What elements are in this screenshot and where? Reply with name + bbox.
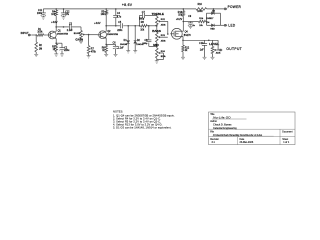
wire R1 to Q1 base: [44, 34, 47, 36]
capacitor C13 1uF: [204, 40, 206, 43]
resistor R8 10k tone: [141, 25, 148, 28]
svg-text:NOTES:: NOTES:: [113, 109, 123, 113]
svg-text:560p: 560p: [139, 19, 145, 21]
node dot rail C12: [63, 8, 65, 10]
diode D3 1N5817: [211, 12, 214, 15]
svg-text:RV3: RV3: [161, 35, 166, 37]
wire LEVEL wiper to OUTPUT: [217, 49, 220, 51]
svg-text:Nu-Life OD: Nu-Life OD: [213, 115, 231, 119]
svg-text:100R: 100R: [197, 11, 203, 13]
node dot rail C4: [115, 8, 117, 10]
wire Q1 collector branch: [56, 26, 69, 28]
svg-text:D3: D3: [212, 10, 216, 12]
svg-text:1u: 1u: [193, 25, 196, 27]
wire GAIN bottom to ground: [80, 39, 82, 42]
svg-text:B100k: B100k: [74, 33, 81, 35]
svg-text:Q1: Q1: [58, 30, 62, 32]
svg-text:Q4: Q4: [185, 31, 189, 33]
resistor R6 1k emitter: [105, 45, 108, 52]
node dot power: [213, 8, 215, 10]
node dot Q2 collector: [105, 25, 107, 27]
svg-text:23-Mar-2026: 23-Mar-2026: [240, 141, 254, 144]
svg-text:D2: D2: [137, 40, 141, 42]
svg-text:D:\Users\Chuck Bones\My Docs\N: D:\Users\Chuck Bones\My Docs\Nu-Life v1.…: [213, 134, 263, 137]
ground under D2: [133, 50, 137, 52]
svg-text:10k: 10k: [140, 29, 145, 31]
wire Q4 source: [180, 35, 183, 37]
transistor Q1 2N5087: [48, 31, 56, 39]
wire R4 to Q1 collector: [55, 16, 57, 32]
resistor R14 10k feed: [199, 20, 206, 23]
node dot gate join: [167, 33, 169, 35]
resistor R4 10k: [55, 9, 57, 10]
wire to D2: [134, 26, 136, 41]
wire power node down: [213, 9, 215, 13]
transistor Q4 BS170 mosfet: [171, 28, 182, 39]
wire drain node to C9: [183, 21, 198, 23]
capacitor C9 1u decouple: [190, 22, 192, 23]
svg-text:4.7u: 4.7u: [117, 16, 122, 18]
wire bass wiper: [161, 36, 168, 38]
svg-text:3.1: 3.1: [212, 141, 216, 144]
wire treble bottom to bass top: [156, 26, 158, 32]
svg-text:A50k: A50k: [161, 39, 167, 42]
svg-text:Q2: Q2: [107, 31, 111, 33]
capacitor C2 220u bypass: [61, 43, 63, 47]
capacitor C4 4.7u: [115, 9, 117, 15]
ground under R6: [104, 53, 108, 55]
svg-text:1k: 1k: [185, 50, 188, 52]
node dot bass mid: [156, 46, 158, 48]
node dot tone in: [139, 25, 141, 27]
svg-text:1M: 1M: [39, 48, 42, 50]
ground under R3: [54, 53, 58, 55]
svg-text:560p: 560p: [143, 43, 149, 45]
svg-text:OUTPUT: OUTPUT: [226, 47, 242, 51]
svg-text:R14: R14: [199, 18, 204, 20]
svg-text:470k: 470k: [91, 51, 97, 53]
svg-text:2.2uF: 2.2uF: [67, 30, 73, 32]
wire mid wiper to bottom: [161, 52, 163, 54]
wire C5 to diodes node: [123, 25, 139, 27]
svg-text:1N4148: 1N4148: [120, 44, 128, 46]
node dot rail R5: [105, 8, 107, 10]
ground under C12: [62, 16, 66, 18]
wire Q2 collector chain: [106, 25, 120, 27]
svg-text:R2: R2: [39, 45, 43, 47]
svg-text:+4.6V: +4.6V: [94, 22, 101, 25]
svg-text:+4.6V: +4.6V: [51, 21, 58, 24]
node dot C4 bottom: [115, 25, 117, 27]
wire INPUT to node: [31, 34, 36, 36]
ground under D1: [126, 50, 130, 52]
node dot level feed: [208, 40, 210, 42]
wire mid bottom: [156, 58, 158, 61]
resistor R3 1k emitter: [55, 44, 58, 52]
svg-text:File: File: [210, 131, 214, 133]
capacitor C7 560p treble: [142, 13, 144, 18]
resistor R1 100k series: [37, 34, 43, 37]
capacitor C8 560p mid: [148, 26, 150, 40]
node dot D1: [127, 25, 129, 27]
svg-text:Celestial Engineering: Celestial Engineering: [213, 127, 237, 130]
transistor Q2 2N5087: [99, 31, 107, 39]
ground under C2: [60, 53, 64, 55]
svg-text:+8.6V: +8.6V: [122, 3, 133, 7]
wire Q1 emitter: [55, 38, 57, 44]
svg-text:D4: D4: [207, 22, 211, 24]
wire R16 to power node: [207, 8, 225, 10]
wire diode bracket: [207, 12, 221, 14]
port POWER: [224, 8, 227, 10]
ground under C11: [41, 16, 45, 18]
node dot source: [182, 40, 184, 42]
node dot Q1 collector: [55, 26, 57, 28]
svg-text:C5: C5: [118, 22, 122, 24]
svg-text:2N5087/5B: 2N5087/5B: [57, 34, 68, 36]
ground under R2: [34, 53, 38, 55]
svg-text:C2: C2: [64, 48, 68, 50]
node dot Q1 emitter: [55, 42, 57, 44]
svg-text:220n: 220n: [117, 30, 123, 32]
wire Q2 emitter: [105, 38, 107, 45]
svg-text:Document: Document: [282, 130, 293, 133]
svg-text:BS170: BS170: [184, 35, 192, 37]
wire source to LEVEL: [183, 39, 218, 41]
svg-text:RV2: RV2: [161, 19, 166, 21]
svg-text:POWER: POWER: [228, 5, 242, 9]
svg-text:A10k: A10k: [216, 52, 222, 55]
svg-text:C4: C4: [117, 13, 121, 15]
svg-text:R7: R7: [91, 48, 95, 50]
svg-text:RV4: RV4: [161, 51, 166, 53]
svg-text:MID: MID: [153, 43, 159, 47]
wire to LED port: [221, 24, 225, 26]
resistor R7 470k bias: [88, 35, 90, 46]
svg-text:R12: R12: [185, 47, 190, 49]
diode D4 LED: [211, 24, 214, 27]
wire R8 to treble bottom: [147, 25, 157, 27]
svg-text:10k: 10k: [199, 25, 203, 27]
wire C7 to treble top: [145, 14, 157, 16]
svg-text:100k: 100k: [37, 32, 43, 34]
node dot collector branch: [63, 26, 65, 28]
svg-text:R6: R6: [102, 47, 106, 49]
wire to D1: [127, 26, 129, 41]
potentiometer GAIN B100k: [80, 30, 83, 38]
resistor R2 1M input bias: [35, 35, 37, 42]
node dot bias: [88, 34, 90, 36]
diode D2 1N4148 clipper: [134, 41, 137, 44]
node dot drain: [183, 21, 185, 23]
wire emitter to C2: [56, 42, 62, 44]
svg-text:TREBLE: TREBLE: [152, 12, 164, 16]
svg-text:RED: RED: [210, 29, 215, 31]
wire +9V rail: [43, 8, 196, 10]
wire GAIN wiper to Q2 base: [85, 34, 97, 36]
svg-text:C13: C13: [199, 43, 204, 45]
ground under MID: [155, 60, 159, 62]
svg-text:C6: C6: [113, 43, 117, 45]
resistor R5 10k collector load: [105, 9, 107, 11]
svg-text:5. D1-D3 can be 1N4148, 1N914: 5. D1-D3 can be 1N4148, 1N914 or equival…: [113, 126, 172, 130]
wire C3 to GAIN pot: [72, 26, 81, 28]
ground under LEVEL: [211, 56, 215, 58]
svg-text:R8: R8: [141, 22, 145, 24]
node dot rail R4: [55, 8, 57, 10]
wire emitter to C6: [106, 43, 115, 45]
wire R14 to LED branch: [206, 21, 207, 23]
svg-text:A50k: A50k: [161, 24, 167, 27]
svg-text:LED: LED: [228, 24, 235, 28]
capacitor C11 100u rail filter: [42, 9, 44, 13]
capacitor C3 2.2uF coupling: [68, 24, 70, 29]
title block frame: [209, 112, 296, 145]
node dot treble bass: [156, 25, 158, 27]
ground under R12: [181, 56, 185, 58]
ground under C13: [203, 56, 207, 58]
wire R13 to Q4 drain: [182, 16, 184, 31]
node dot rail R13: [183, 8, 185, 10]
capacitor C12 47u: [63, 9, 65, 13]
resistor R16 100R supply: [196, 8, 207, 11]
svg-text:INPUT: INPUT: [21, 31, 29, 35]
port LED: [224, 24, 227, 26]
wire C8 to mid node: [149, 45, 157, 47]
svg-text:2N5087/5B: 2N5087/5B: [107, 34, 118, 36]
svg-text:220u: 220u: [64, 50, 70, 52]
svg-text:+8.2V: +8.2V: [176, 18, 183, 21]
svg-text:100u: 100u: [37, 13, 43, 15]
wire bass bottom to mid: [156, 42, 158, 48]
resistor R12 1k source: [182, 45, 185, 52]
svg-text:C3: C3: [69, 23, 73, 25]
svg-text:BASS: BASS: [152, 29, 161, 33]
node dot Q2 emitter: [105, 44, 107, 46]
svg-text:1uF: 1uF: [200, 49, 205, 51]
svg-text:2.2uF: 2.2uF: [118, 48, 124, 50]
wire tone upper branch: [139, 15, 141, 25]
svg-text:1 of 1: 1 of 1: [283, 141, 290, 144]
svg-text:C9: C9: [188, 16, 192, 18]
port OUTPUT: [220, 49, 223, 51]
svg-text:47u: 47u: [65, 14, 70, 16]
svg-text:10k: 10k: [101, 14, 106, 16]
resistor R13 10k drain: [182, 9, 184, 11]
capacitor C6 2.2uF bypass: [115, 44, 117, 46]
node dot input: [35, 34, 37, 36]
wire R5 to Q2 collector: [105, 15, 107, 31]
wire treble wiper to gate: [161, 20, 168, 22]
ground under GAIN: [79, 40, 83, 42]
svg-text:1N5817: 1N5817: [206, 18, 214, 20]
svg-text:R16: R16: [198, 4, 203, 6]
ground under R7: [87, 55, 91, 57]
diode D1 1N4148 clipper: [127, 41, 130, 44]
wire LEVEL bottom: [212, 54, 214, 58]
ground under C9: [189, 25, 193, 27]
node dot C8 tap: [148, 25, 150, 27]
ground under C6: [114, 53, 118, 55]
svg-text:C7: C7: [142, 12, 146, 14]
capacitor C5 220n: [120, 23, 122, 28]
node dot D2: [134, 25, 136, 27]
